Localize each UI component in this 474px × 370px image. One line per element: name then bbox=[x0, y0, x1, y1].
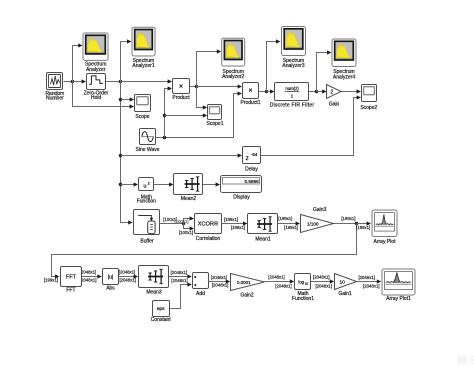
signal dimension label [100x1] (Correlation in1, middle) bbox=[174, 219, 188, 224]
node J5 on trunk bbox=[119, 183, 122, 186]
svg-text:Hold: Hold bbox=[91, 95, 102, 101]
block Display bbox=[221, 176, 262, 193]
signal dimension label [199x1] (Gain3 out, above) bbox=[341, 216, 355, 221]
svg-text:[2048x1]: [2048x1] bbox=[80, 269, 97, 274]
wire Delay output to Scope2 input 2 bbox=[261, 95, 362, 155]
signal dimension label [2048x1] (Mean3 out, above) bbox=[171, 270, 188, 275]
svg-text:10: 10 bbox=[340, 280, 346, 286]
block Array Plot1 bbox=[382, 269, 415, 295]
svg-text:[2048x1]: [2048x1] bbox=[313, 275, 330, 280]
block Correlation bbox=[195, 214, 222, 234]
svg-text:Buffer: Buffer bbox=[140, 239, 154, 245]
svg-text:log: log bbox=[298, 279, 304, 284]
node J4 on trunk bbox=[119, 154, 122, 157]
signal dimension label [2048x1] (Gain1 in, below) bbox=[315, 283, 332, 288]
label FFT bbox=[66, 288, 75, 294]
wire feedback node J12 down and left to FFT input bbox=[52, 224, 357, 279]
label Spectrum Analyzer bbox=[85, 62, 106, 73]
wire node J1 down to Scope input 2 bbox=[73, 82, 135, 109]
svg-text:[2048x1]: [2048x1] bbox=[268, 275, 285, 280]
svg-text:Product1: Product1 bbox=[240, 100, 260, 106]
signal dimension label [2048x1] (Array Plot1 in, below) bbox=[363, 283, 380, 288]
node J1 bbox=[71, 80, 74, 83]
block Spectrum Analyzer2 bbox=[222, 38, 245, 66]
svg-text:XCORR: XCORR bbox=[198, 221, 219, 227]
block Scope2 bbox=[362, 85, 377, 102]
block Product1 bbox=[243, 83, 259, 99]
block Gain2 bbox=[231, 274, 265, 291]
label Abs bbox=[106, 286, 115, 292]
svg-text:Analyzer2: Analyzer2 bbox=[222, 74, 244, 80]
wire Product output to node J8 bbox=[190, 86, 197, 88]
wire node J2 to Product input 1 bbox=[121, 79, 173, 83]
signal dimension label [2048x1] (Abs in, below) bbox=[80, 277, 97, 282]
wire node J11 to Correlation input 1 bbox=[184, 216, 195, 223]
wire node J10 to Gain input bbox=[317, 89, 327, 93]
label Random Number bbox=[45, 91, 64, 102]
signal dimension label [2048x1] (Gain2 in, below) bbox=[212, 283, 229, 288]
signal dimension label [199x1] (Mean1 out, above) bbox=[278, 216, 292, 221]
svg-text:Constant: Constant bbox=[151, 317, 172, 323]
wire Mean1 output to Gain3 input bbox=[278, 221, 301, 225]
wire Discrete FIR Filter output to node J10 bbox=[309, 91, 317, 93]
block Gain1 bbox=[335, 274, 357, 290]
svg-text:Analyzer4: Analyzer4 bbox=[333, 74, 355, 80]
svg-text:0.5866: 0.5866 bbox=[244, 179, 259, 184]
block Scope1 bbox=[208, 105, 222, 120]
node J11 bbox=[182, 222, 185, 225]
label Gain3 bbox=[313, 207, 327, 213]
svg-text:Sine Wave: Sine Wave bbox=[136, 147, 160, 153]
signal dimension label [100x1] (Buffer out, above) bbox=[163, 217, 177, 222]
svg-text:[199x1]: [199x1] bbox=[278, 216, 292, 221]
wire node J12 to Array Plot input bbox=[357, 221, 372, 225]
label Spectrum Analyzer4 bbox=[333, 69, 355, 80]
label Add bbox=[196, 291, 205, 297]
svg-text:[199x1]: [199x1] bbox=[224, 217, 238, 222]
svg-text:Correlation: Correlation bbox=[196, 236, 221, 242]
label Zero-Order Hold bbox=[84, 91, 109, 101]
svg-text:eps: eps bbox=[157, 307, 165, 312]
signal dimension label [199x1] (FFT in, below) bbox=[44, 278, 58, 283]
signal dimension label [2048x1] (Add in, below) bbox=[171, 278, 188, 283]
svg-text:[199x1]: [199x1] bbox=[44, 278, 58, 283]
block Discrete FIR Filter bbox=[275, 83, 309, 101]
block Spectrum Analyzer3 bbox=[282, 27, 306, 56]
svg-text:[199x1]: [199x1] bbox=[284, 225, 298, 230]
label Scope1 bbox=[207, 121, 224, 127]
svg-text:Add: Add bbox=[196, 291, 205, 297]
node J6 on Sine Wave line bbox=[163, 136, 166, 139]
svg-text:FFT: FFT bbox=[66, 275, 77, 281]
signal dimension label [100x1] (Correlation in2, below) bbox=[179, 230, 193, 235]
wire node J5 to Math Function input bbox=[121, 182, 139, 186]
signal dimension label [2048x1] (Add out, above) bbox=[211, 275, 228, 280]
svg-text:Analyzer: Analyzer bbox=[86, 67, 106, 73]
svg-text:-64: -64 bbox=[251, 152, 258, 157]
svg-text:0.0001: 0.0001 bbox=[237, 280, 251, 285]
svg-text:Delay: Delay bbox=[245, 166, 258, 172]
label Delay bbox=[245, 166, 258, 172]
wire node J11 to Correlation input 2 bbox=[184, 224, 195, 231]
svg-text:[100x1]: [100x1] bbox=[174, 219, 188, 224]
svg-text:Scope: Scope bbox=[135, 114, 149, 120]
svg-text:×: × bbox=[179, 82, 183, 91]
wire Buffer output to node J11 bbox=[160, 223, 184, 225]
svg-text:Mean2: Mean2 bbox=[181, 196, 197, 202]
wire node J10 up to Spectrum Analyzer4 input bbox=[317, 50, 332, 91]
svg-text:Array Plot1: Array Plot1 bbox=[386, 296, 411, 302]
svg-text:2: 2 bbox=[331, 90, 334, 96]
svg-text:|u|: |u| bbox=[108, 275, 113, 281]
svg-text:[199x1]: [199x1] bbox=[231, 225, 245, 230]
label Mean1 bbox=[255, 236, 271, 242]
svg-text:[2048x1]: [2048x1] bbox=[358, 275, 375, 280]
svg-text:Gain2: Gain2 bbox=[240, 292, 254, 298]
label Constant bbox=[151, 317, 172, 323]
label Gain1 bbox=[338, 291, 352, 297]
block Spectrum Analyzer4 bbox=[332, 39, 356, 67]
wire Gain3 output to node J12 bbox=[334, 223, 357, 225]
wire Mean2 output to Display input bbox=[203, 182, 221, 186]
block Abs bbox=[103, 269, 119, 285]
wire Correlation output to Mean1 input bbox=[222, 221, 248, 225]
svg-text:Mean3: Mean3 bbox=[146, 289, 162, 295]
svg-text:Number: Number bbox=[46, 95, 64, 101]
watermark bottom right bbox=[457, 355, 474, 365]
block Add bbox=[193, 273, 209, 289]
wire Gain1 output to Array Plot1 input bbox=[357, 279, 382, 283]
label Discrete FIR Filter bbox=[270, 103, 315, 109]
label Scope2 bbox=[360, 105, 377, 111]
block Math Function1 bbox=[295, 274, 311, 290]
label Buffer bbox=[140, 239, 154, 245]
block Scope bbox=[135, 95, 151, 112]
svg-text:Scope1: Scope1 bbox=[207, 121, 224, 127]
block Zero-Order Hold bbox=[87, 74, 106, 90]
svg-text:Analyzer1: Analyzer1 bbox=[132, 63, 154, 69]
node J8 bbox=[195, 85, 198, 88]
svg-text:Product: Product bbox=[172, 95, 190, 101]
svg-text:Analyzer3: Analyzer3 bbox=[282, 63, 304, 69]
label Gain2 bbox=[240, 292, 254, 298]
label Spectrum Analyzer3 bbox=[282, 58, 304, 69]
block Mean2 bbox=[174, 174, 203, 195]
svg-text:[2048x1]: [2048x1] bbox=[315, 283, 332, 288]
svg-text:10: 10 bbox=[305, 282, 309, 286]
svg-text:Display: Display bbox=[233, 194, 250, 200]
svg-text:Function1: Function1 bbox=[292, 296, 314, 302]
signal dimension label [2048x1] (Gain1 out, above) bbox=[358, 275, 375, 280]
svg-text:[2048x1]: [2048x1] bbox=[80, 277, 97, 282]
svg-text:[199x1]: [199x1] bbox=[356, 225, 370, 230]
wire Math Function1 output to Gain1 input bbox=[311, 279, 335, 283]
wire node J9 to Discrete FIR Filter input bbox=[267, 89, 275, 93]
wire Gain2 output to Math Function1 input bbox=[265, 279, 295, 283]
node J7 bbox=[163, 114, 166, 117]
label Scope bbox=[135, 114, 149, 120]
svg-text:[2048x1]: [2048x1] bbox=[171, 278, 188, 283]
wire node J1 up to Spectrum Analyzer input bbox=[73, 43, 83, 81]
block Mean3 bbox=[139, 266, 169, 288]
signal dimension label [2048x1] (Abs out, above) bbox=[119, 269, 136, 274]
block Math Function bbox=[139, 178, 154, 191]
block Array Plot bbox=[372, 210, 397, 237]
svg-text:[2048x1]: [2048x1] bbox=[119, 278, 136, 283]
wire node J6 up to Product input 2 bbox=[165, 86, 173, 137]
label Spectrum Analyzer2 bbox=[222, 69, 244, 80]
signal dimension label [199x1] (Correlation out, above) bbox=[224, 217, 238, 222]
label Product1 bbox=[240, 100, 260, 106]
wire node J8 down to Scope1 input 1 bbox=[197, 87, 208, 110]
block Delay bbox=[243, 147, 261, 164]
svg-text:FFT: FFT bbox=[66, 288, 75, 294]
label Mean2 bbox=[181, 196, 197, 202]
svg-text:Function: Function bbox=[137, 199, 156, 205]
label Product bbox=[172, 95, 190, 101]
svg-text:[199x1]: [199x1] bbox=[341, 216, 355, 221]
signal dimension label [2048x1] (Math Function1 in, below) bbox=[275, 284, 292, 289]
svg-text:[2048x1]: [2048x1] bbox=[171, 270, 188, 275]
label Spectrum Analyzer1 bbox=[132, 58, 154, 69]
block Gain bbox=[327, 85, 342, 99]
signal dimension label [2048x1] (Math Function1 out, above) bbox=[313, 275, 330, 280]
signal dimension label [199x1] (Mean1 in, below) bbox=[231, 225, 245, 230]
wire node J4 to Delay input bbox=[121, 153, 243, 157]
block Gain3 bbox=[301, 215, 334, 233]
wire Product1 output to node J9 bbox=[259, 91, 267, 93]
wire FFT output to Abs input bbox=[82, 274, 102, 278]
svg-text:num(z): num(z) bbox=[285, 86, 299, 91]
wire node J2 up to Spectrum Analyzer1 input bbox=[121, 39, 132, 81]
block Sine Wave bbox=[140, 129, 156, 145]
label Sine Wave bbox=[136, 147, 160, 153]
wire Abs output to Mean3 input bbox=[119, 274, 139, 278]
svg-text:Abs: Abs bbox=[106, 286, 115, 292]
block Spectrum Analyzer bbox=[83, 33, 108, 60]
signal dimension label [199x1] (Array Plot in, below) bbox=[356, 225, 370, 230]
wire Add output to Gain2 input bbox=[209, 279, 231, 283]
svg-text:Array Plot: Array Plot bbox=[374, 239, 397, 245]
svg-text:[2048x1]: [2048x1] bbox=[363, 283, 380, 288]
wire Zero-Order Hold output to node J2 bbox=[106, 81, 121, 83]
label Mean3 bbox=[146, 289, 162, 295]
block Product bbox=[173, 79, 190, 94]
node J2 bbox=[119, 80, 122, 83]
node J3 on trunk bbox=[119, 98, 122, 101]
label Math Function bbox=[137, 194, 156, 204]
signal dimension label [199x1] (Gain3 in, below) bbox=[284, 225, 298, 230]
label Correlation bbox=[196, 236, 221, 242]
svg-text:z: z bbox=[246, 155, 249, 162]
label Gain bbox=[329, 101, 340, 107]
node J9 bbox=[265, 90, 268, 93]
svg-text:Mean1: Mean1 bbox=[255, 236, 271, 242]
wire Mean3 output to Add input 1 bbox=[169, 274, 192, 278]
node J10 bbox=[315, 90, 318, 93]
label Math Function1 bbox=[292, 291, 314, 302]
svg-text:u: u bbox=[144, 184, 147, 190]
svg-text:1/100: 1/100 bbox=[307, 221, 319, 226]
wire node J8 up to Spectrum Analyzer2 input bbox=[197, 49, 222, 86]
block FFT bbox=[61, 267, 82, 287]
wire Random Number output to node J1 bbox=[64, 81, 73, 83]
wire Gain output to Scope2 input 1 bbox=[341, 89, 362, 93]
signal dimension label [2048x1] (FFT out, above) bbox=[80, 269, 97, 274]
svg-text:Gain: Gain bbox=[329, 101, 340, 107]
signal dimension label [2048x1] (Mean3 in, below) bbox=[119, 278, 136, 283]
wire Math Function output to Mean2 input bbox=[154, 182, 174, 186]
wire node J7 to Scope1 input 2 bbox=[165, 113, 208, 117]
label Display bbox=[233, 194, 250, 200]
svg-text:[100x1]: [100x1] bbox=[179, 230, 193, 235]
signal dimension label [2048x1] (Gain2 out, above) bbox=[268, 275, 285, 280]
svg-text:×: × bbox=[248, 86, 252, 95]
node J12 bbox=[355, 222, 358, 225]
wire trunk from node J2 down to Buffer input bbox=[121, 82, 133, 225]
svg-text:Discrete FIR Filter: Discrete FIR Filter bbox=[270, 103, 315, 109]
svg-text:[2048x1]: [2048x1] bbox=[275, 284, 292, 289]
wire Sine Wave output to Product1 input 2 bbox=[156, 91, 243, 137]
wire node J1 to Zero-Order Hold input bbox=[73, 79, 87, 83]
block Random Number bbox=[47, 73, 63, 90]
wire node J9 up to Spectrum Analyzer3 input bbox=[267, 39, 281, 91]
svg-text:[2048x1]: [2048x1] bbox=[119, 269, 136, 274]
wire node J8 to Product1 input 1 bbox=[197, 84, 243, 88]
svg-text:Gain3: Gain3 bbox=[313, 207, 327, 213]
svg-text:Scope2: Scope2 bbox=[360, 105, 377, 111]
wire Constant output to Add input 2 bbox=[170, 282, 192, 308]
svg-text:Gain1: Gain1 bbox=[338, 291, 352, 297]
svg-text:2: 2 bbox=[148, 181, 150, 185]
block Mean1 bbox=[248, 214, 278, 234]
block Spectrum Analyzer1 bbox=[132, 27, 155, 56]
svg-text:[2048x1]: [2048x1] bbox=[212, 283, 229, 288]
svg-text:[2048x1]: [2048x1] bbox=[211, 275, 228, 280]
label Array Plot bbox=[374, 239, 397, 245]
label Array Plot1 bbox=[386, 296, 411, 302]
wire node J3 to Scope input 1 bbox=[121, 97, 135, 101]
block Constant bbox=[153, 301, 170, 317]
block Buffer bbox=[134, 210, 160, 235]
